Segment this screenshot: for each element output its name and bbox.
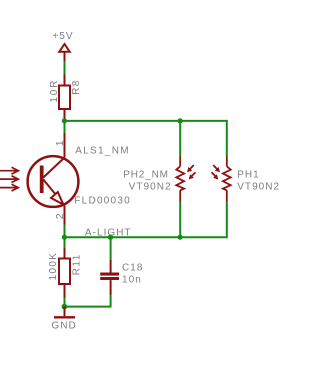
svg-text:ALS1_NM: ALS1_NM — [75, 146, 130, 157]
svg-text:R8: R8 — [71, 79, 82, 95]
svg-text:PH1: PH1 — [237, 170, 260, 181]
svg-text:C18: C18 — [122, 263, 144, 274]
svg-text:PH2_NM: PH2_NM — [123, 170, 169, 181]
svg-text:1: 1 — [54, 140, 66, 146]
svg-text:FLD00030: FLD00030 — [74, 196, 131, 207]
svg-text:10R: 10R — [49, 79, 60, 103]
svg-text:GND: GND — [51, 320, 76, 331]
svg-text:100K: 100K — [48, 252, 59, 281]
svg-text:VT90N2: VT90N2 — [129, 181, 172, 192]
svg-text:VT90N2: VT90N2 — [237, 181, 280, 192]
svg-text:R11: R11 — [72, 253, 83, 275]
svg-text:2: 2 — [54, 213, 66, 219]
svg-text:+5V: +5V — [52, 31, 73, 42]
svg-text:10n: 10n — [122, 275, 142, 286]
svg-text:A-LIGHT: A-LIGHT — [85, 227, 132, 238]
